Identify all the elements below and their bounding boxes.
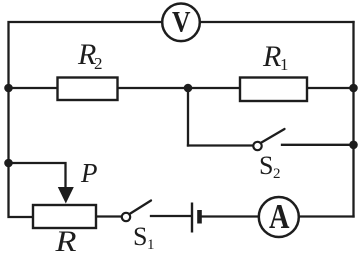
wire middle row left — [9, 87, 58, 89]
svg-text:V: V — [172, 6, 191, 39]
wire S2 branch right — [282, 144, 354, 146]
node left lower — [4, 159, 13, 168]
wire wiper branch — [9, 163, 66, 188]
battery — [192, 203, 200, 233]
wire S1 to battery — [151, 215, 191, 217]
node right upper — [349, 84, 358, 93]
wire rheostat to S1 — [96, 215, 122, 217]
wire S2 branch left — [188, 144, 254, 146]
wire top — [9, 22, 354, 88]
voltmeter V — [162, 4, 200, 42]
wire S2 branch vertical — [187, 88, 189, 146]
svg-text:2: 2 — [94, 54, 103, 73]
node right lower — [349, 141, 358, 150]
rheostat wiper arrowhead — [58, 187, 74, 204]
wire left lower — [9, 88, 34, 217]
svg-text:1: 1 — [280, 55, 289, 74]
switch S2 — [253, 129, 284, 150]
wire middle row center — [118, 87, 241, 89]
ammeter A — [259, 197, 299, 237]
svg-text:A: A — [269, 197, 290, 236]
svg-text:2: 2 — [273, 166, 281, 182]
node center — [184, 84, 193, 93]
node left middle — [4, 84, 13, 93]
switch S1 — [122, 201, 151, 222]
svg-text:R: R — [262, 40, 281, 73]
svg-text:R: R — [54, 225, 76, 254]
wire right — [352, 22, 354, 217]
svg-text:S: S — [259, 151, 273, 180]
svg-text:1: 1 — [147, 237, 155, 253]
rheostat R — [33, 205, 96, 228]
wire ammeter to right — [298, 215, 354, 217]
wire battery to ammeter — [201, 215, 260, 217]
resistor R1 — [240, 78, 307, 102]
svg-text:P: P — [80, 158, 98, 188]
svg-text:S: S — [133, 222, 147, 251]
resistor R2 — [58, 78, 118, 101]
wire middle row right — [307, 87, 354, 89]
